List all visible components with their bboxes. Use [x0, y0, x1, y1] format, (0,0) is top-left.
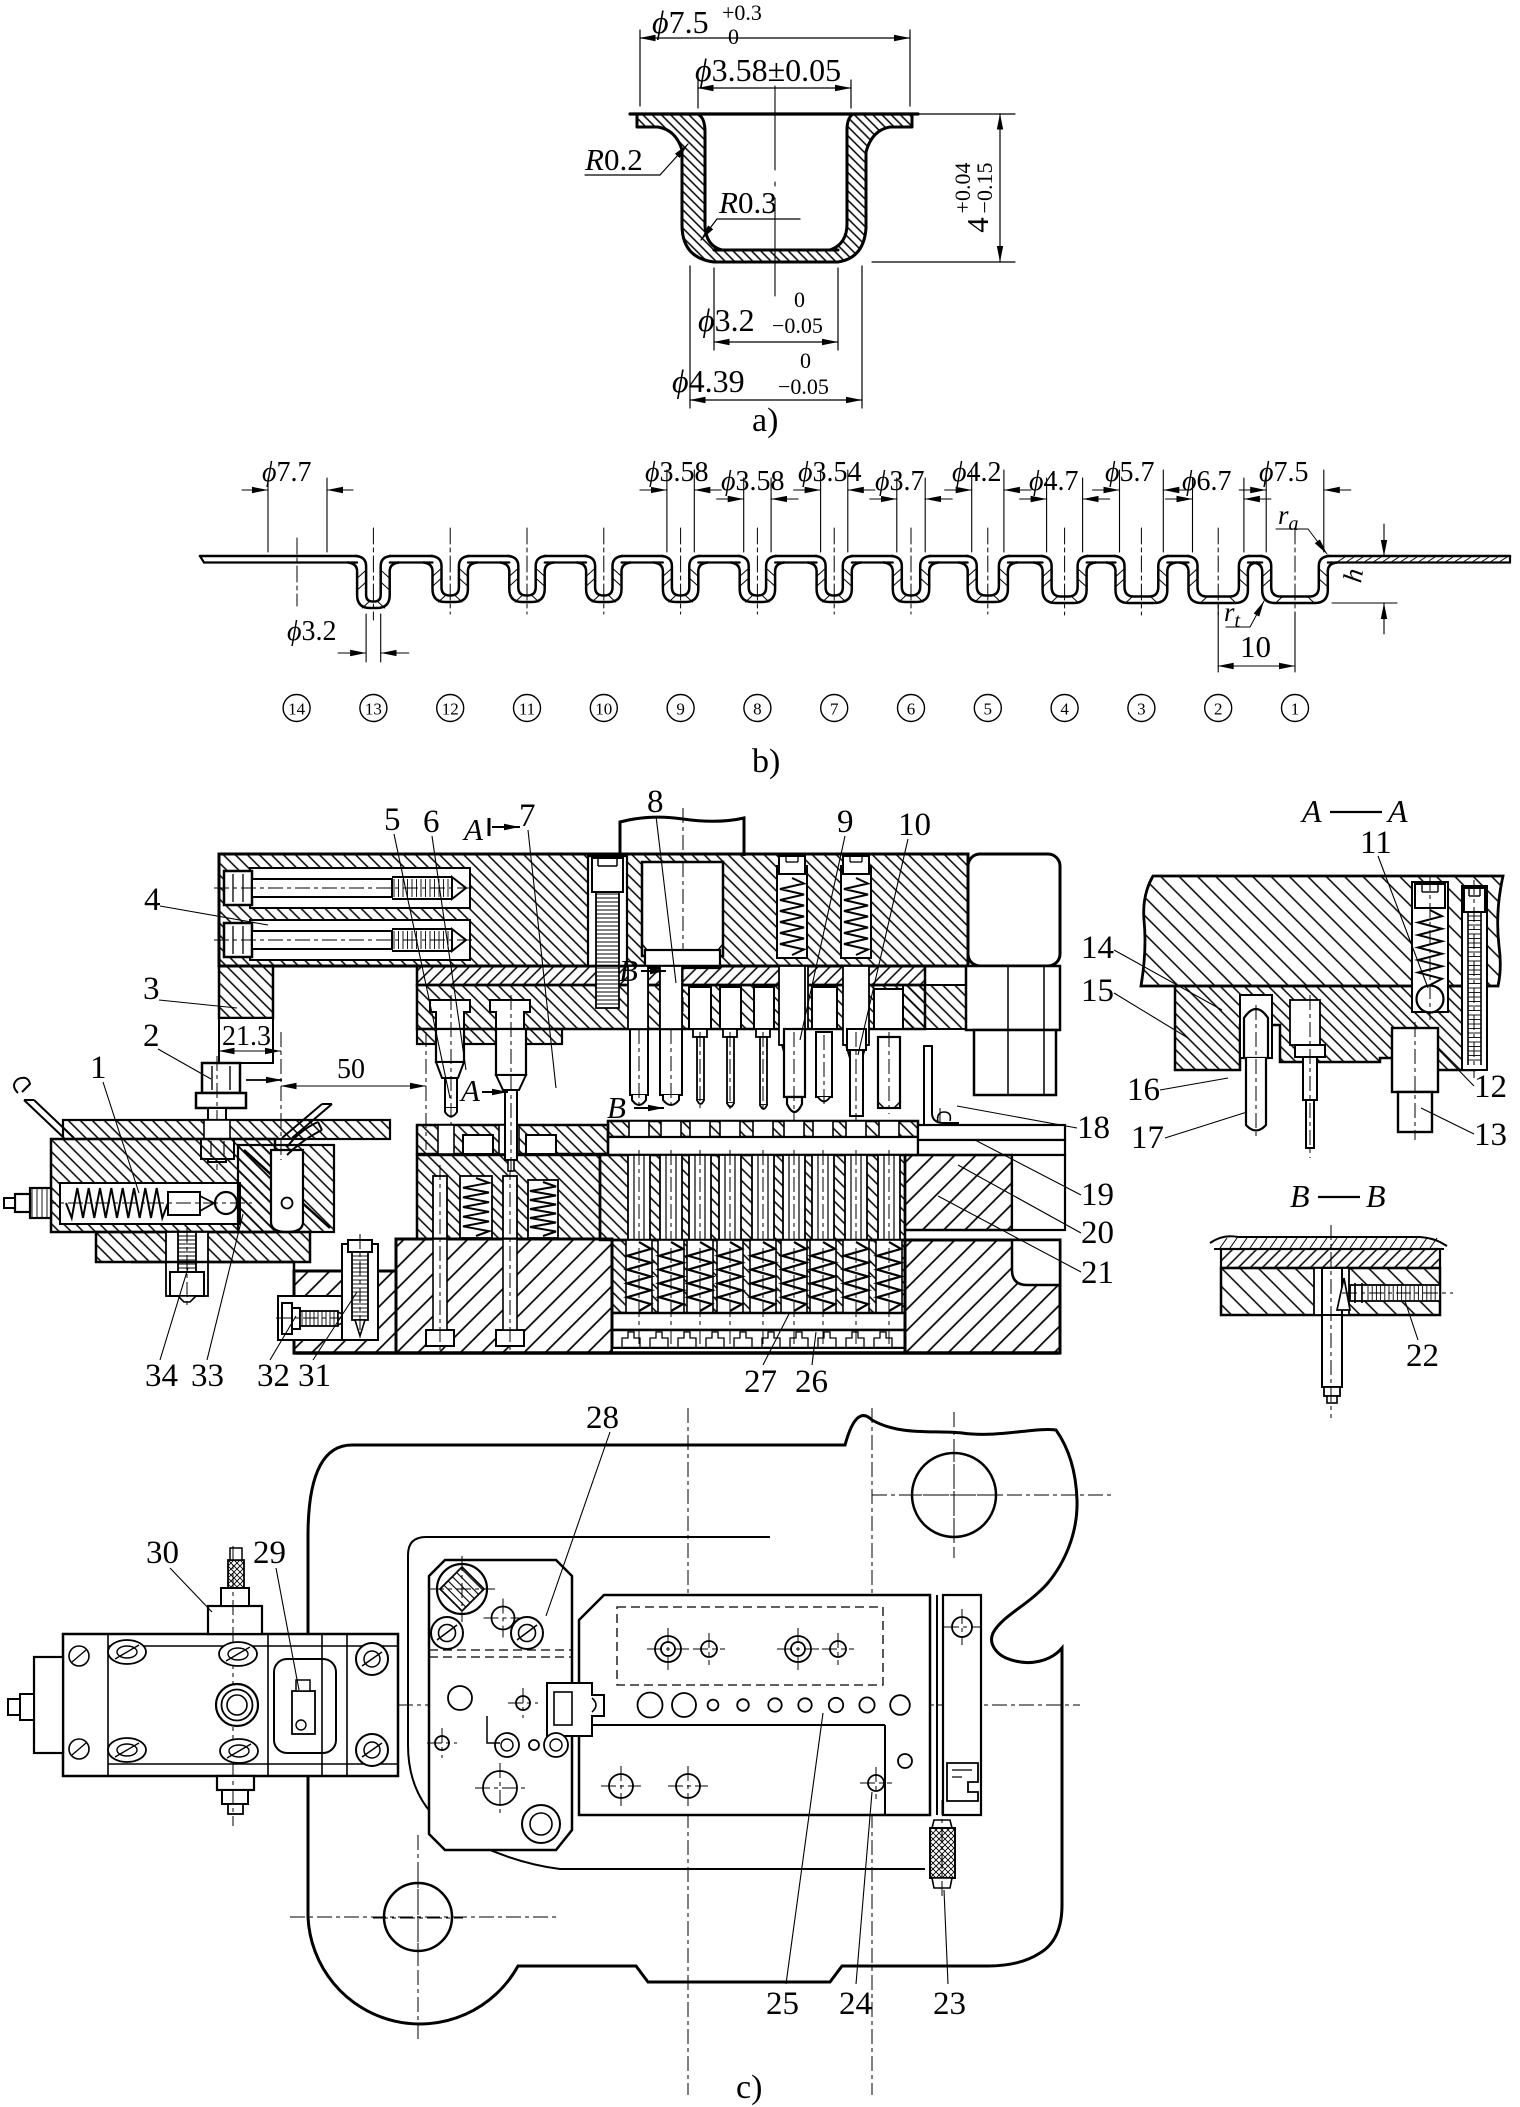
left stripper plate [417, 1125, 608, 1154]
press shank 8 top [620, 817, 744, 856]
pinB [723, 1029, 737, 1037]
lifter link 32 [271, 1150, 303, 1232]
comb plate [612, 1330, 905, 1348]
svg-text:12: 12 [1474, 1069, 1507, 1105]
B-B screw 22 [1350, 1285, 1440, 1301]
screw pocket 2 [250, 920, 470, 960]
svg-text:12: 12 [442, 700, 459, 719]
lower row holes [609, 1774, 633, 1798]
die right block [905, 1155, 1012, 1230]
svg-text:9: 9 [837, 804, 854, 840]
bolt 2 [202, 1063, 240, 1093]
punch E [816, 1032, 832, 1097]
svg-text:A: A [1300, 793, 1322, 829]
svg-text:4: 4 [1060, 700, 1069, 719]
top right hole [912, 1453, 996, 1537]
svg-text:33: 33 [191, 1358, 224, 1394]
feed spring 1 [66, 1188, 168, 1218]
svg-text:8: 8 [647, 784, 664, 820]
tongue to die plate [547, 1683, 604, 1736]
stop screw slot below [596, 966, 619, 1008]
die block center [600, 1155, 905, 1240]
dim phi3.2 [713, 268, 715, 350]
die plate plan [579, 1595, 930, 1815]
svg-text:22: 22 [1406, 1338, 1439, 1374]
svg-text:ϕ7.5: ϕ7.5 [652, 4, 709, 40]
right slotted screws [356, 1643, 388, 1675]
B-B pin slot [1314, 1268, 1349, 1315]
screw 31 pocket [278, 1296, 362, 1340]
svg-text:29: 29 [253, 1535, 286, 1571]
svg-text:−0.15: −0.15 [972, 163, 997, 214]
guide finger left [24, 1100, 74, 1138]
screw 32v pocket [342, 1244, 378, 1340]
svg-text:ϕ4.39: ϕ4.39 [672, 363, 745, 399]
pinA head [689, 987, 711, 1029]
lower die shoe right [905, 1240, 1060, 1353]
svg-text:7: 7 [519, 798, 536, 834]
svg-text:1: 1 [1291, 700, 1300, 719]
plan inner contour [408, 1537, 925, 1869]
right vertical centerline [871, 1408, 873, 2095]
svg-text:18: 18 [1077, 1110, 1110, 1146]
upper row holes [655, 1636, 681, 1662]
punchD column [782, 966, 808, 1029]
feed screw shaft [168, 1192, 200, 1215]
svg-text:26: 26 [795, 1364, 828, 1400]
svg-text:30: 30 [146, 1535, 179, 1571]
pinC head [754, 987, 774, 1029]
svg-text:+0.3: +0.3 [722, 0, 762, 25]
svg-text:3: 3 [143, 971, 160, 1007]
svg-text:4: 4 [960, 217, 995, 233]
right cover plates [918, 1125, 1065, 1140]
svg-text:9: 9 [676, 700, 685, 719]
punch 5 head [430, 1000, 470, 1029]
punch holder plate [417, 985, 925, 1029]
screw 30 stack top [208, 1606, 262, 1634]
svg-text:23: 23 [933, 1986, 966, 2022]
svg-text:10: 10 [1240, 629, 1271, 664]
svg-text:A: A [1386, 793, 1408, 829]
svg-text:a): a) [752, 402, 778, 439]
svg-text:13: 13 [1474, 1117, 1507, 1153]
svg-text:10: 10 [595, 700, 612, 719]
backing plate [417, 966, 925, 985]
A-A top plate [1141, 876, 1503, 986]
band loop 29 [274, 1659, 336, 1753]
svg-text:0: 0 [728, 24, 739, 49]
hex socket screw [437, 1564, 487, 1614]
svg-text:2: 2 [143, 1018, 160, 1054]
feeder foot plate [96, 1232, 310, 1262]
pinB head [720, 987, 741, 1029]
svg-text:16: 16 [1127, 1072, 1160, 1108]
B-B lower block [1221, 1268, 1440, 1315]
block 28 [429, 1560, 572, 1850]
svg-text:B: B [607, 1090, 626, 1125]
B-B wedge [1337, 1278, 1350, 1310]
svg-text:2: 2 [1214, 700, 1223, 719]
svg-text:c): c) [736, 2069, 762, 2106]
svg-text:5: 5 [384, 802, 401, 838]
feed roller [215, 1192, 237, 1214]
punchF column [845, 966, 868, 1029]
svg-text:17: 17 [1131, 1120, 1164, 1156]
left bracket arm [219, 966, 273, 1018]
feeder top plate [63, 1120, 390, 1139]
shank bore [642, 862, 723, 956]
svg-text:ϕ7.7: ϕ7.7 [262, 457, 312, 488]
B-B lower pin [1322, 1315, 1342, 1387]
vertical stop screw [588, 856, 627, 966]
bottom circles [483, 1771, 517, 1805]
svg-text:32: 32 [257, 1358, 290, 1394]
spring channel [60, 1183, 240, 1224]
suspension spring 2 [528, 1180, 558, 1238]
cup wall hatched section [637, 114, 912, 262]
svg-text:8: 8 [753, 700, 762, 719]
feeder left bracket [34, 1657, 63, 1753]
left punch holder extra band [417, 1029, 562, 1044]
hidden dashed rect [617, 1607, 883, 1685]
svg-text:ϕ4.2: ϕ4.2 [952, 457, 1002, 488]
stripper bolt 1 [433, 1176, 447, 1239]
punch 8 pins [630, 968, 648, 1095]
pin 23 knurled [932, 1820, 952, 1828]
B-B pin [1322, 1268, 1342, 1315]
svg-text:R0.2: R0.2 [584, 142, 643, 177]
cup inner bottom line [714, 249, 838, 252]
draw punch 6 lower [496, 1029, 526, 1075]
arm lower white [219, 1018, 273, 1063]
svg-text:ϕ3.54: ϕ3.54 [798, 457, 862, 488]
svg-text:ϕ6.7: ϕ6.7 [1182, 466, 1232, 497]
A-A spring screw 11 [1412, 882, 1448, 1012]
press vertical centerline [687, 1408, 689, 2095]
svg-text:21.3: 21.3 [222, 1021, 271, 1052]
svg-text:B: B [619, 953, 638, 988]
punch F [847, 1029, 866, 1050]
svg-text:10: 10 [898, 807, 931, 843]
svg-text:27: 27 [744, 1364, 777, 1400]
svg-text:3: 3 [1137, 700, 1146, 719]
svg-text:11: 11 [519, 700, 535, 719]
guide bush top [966, 966, 1060, 1030]
svg-text:1: 1 [90, 1050, 107, 1086]
stripper plate [608, 1121, 918, 1137]
spring pocket 9 [777, 866, 807, 958]
svg-text:A: A [459, 1073, 481, 1108]
svg-text:B: B [1366, 1178, 1386, 1214]
punch D [784, 1029, 805, 1097]
svg-text:−0.05: −0.05 [772, 313, 823, 338]
draw punch 5 lower [436, 1029, 464, 1062]
cup flange top line [630, 112, 918, 115]
bottom stack [217, 1776, 254, 1790]
finger bracket 18 [924, 1046, 958, 1129]
svg-text:R0.3: R0.3 [718, 185, 777, 220]
height dim 4 [918, 113, 1015, 115]
punchE head [812, 987, 837, 1029]
punch 6 head [490, 1000, 530, 1029]
svg-text:5: 5 [984, 700, 993, 719]
shoe step left [131, 1262, 294, 1271]
middle row holes [638, 1693, 663, 1718]
svg-text:13: 13 [365, 700, 382, 719]
small holes row [435, 1736, 449, 1750]
die plate left section [417, 1155, 600, 1239]
A-A bullet punch pocket [1240, 995, 1272, 1058]
vertical set screw [348, 1240, 372, 1252]
upper right rounded block [968, 854, 1060, 966]
screw 31 [282, 1303, 292, 1334]
main horizontal centerline [47, 1704, 1080, 1706]
svg-text:ϕ4.7: ϕ4.7 [1029, 466, 1079, 497]
svg-text:7: 7 [830, 700, 839, 719]
socket screw 4a [224, 871, 252, 905]
punch 8 flange [645, 950, 720, 968]
stripper bolt 2 [503, 1176, 517, 1239]
svg-text:4: 4 [144, 882, 161, 918]
svg-text:ϕ3.58: ϕ3.58 [645, 457, 709, 488]
svg-text:20: 20 [1081, 1215, 1114, 1251]
guide bush lower [974, 1030, 1056, 1095]
svg-text:21: 21 [1081, 1255, 1114, 1291]
socket screw 4b [224, 923, 252, 957]
svg-text:28: 28 [586, 1400, 619, 1436]
upper die plate [219, 854, 968, 966]
svg-text:ϕ3.2: ϕ3.2 [698, 302, 755, 338]
svg-text:B: B [1290, 1178, 1310, 1214]
lower die shoe left [294, 1271, 396, 1353]
svg-text:b): b) [752, 743, 780, 780]
pinC [756, 1029, 770, 1037]
punch 6 pin into die [505, 1090, 517, 1160]
svg-text:0: 0 [800, 348, 811, 373]
svg-text:31: 31 [298, 1358, 331, 1394]
cup center line [774, 86, 776, 296]
bottom left hole [384, 1883, 452, 1951]
oval screws [108, 1640, 146, 1664]
suspension spring 1 [460, 1176, 492, 1238]
punchG head [874, 989, 903, 1029]
svg-text:15: 15 [1081, 973, 1114, 1009]
svg-text:ϕ3.58: ϕ3.58 [721, 466, 785, 497]
screw pocket 1 (item 4) [250, 868, 470, 908]
svg-text:50: 50 [337, 1054, 365, 1085]
svg-text:24: 24 [839, 1986, 872, 2022]
stripper bolt feet [426, 1330, 454, 1346]
spring pocket 10 [841, 866, 871, 958]
A-A right punch 13 [1392, 1028, 1438, 1092]
A-A middle pin [1290, 1000, 1320, 1045]
lower spring box [612, 1240, 905, 1313]
wedge block 33 [238, 1145, 334, 1232]
spring pilot slots [779, 966, 805, 1045]
svg-text:ϕ3.2: ϕ3.2 [287, 616, 337, 647]
svg-text:6: 6 [907, 700, 916, 719]
svg-text:19: 19 [1081, 1177, 1114, 1213]
svg-text:ϕ3.7: ϕ3.7 [875, 466, 925, 497]
svg-text:14: 14 [1081, 930, 1114, 966]
stripper bolt heads [463, 1135, 493, 1154]
svg-text:ϕ3.58±0.05: ϕ3.58±0.05 [695, 52, 841, 88]
guide finger right [282, 1104, 332, 1138]
dim phi7.5 [639, 30, 641, 106]
right clamp rail [936, 1595, 938, 1815]
right hatched band [903, 985, 966, 1029]
pinA [693, 1029, 707, 1037]
feeder housing [51, 1139, 275, 1232]
svg-text:ϕ5.7: ϕ5.7 [1105, 457, 1155, 488]
A-A bullet punch 17 [1244, 1009, 1268, 1058]
svg-text:14: 14 [288, 700, 306, 719]
pin pass columns [628, 966, 648, 1029]
svg-text:34: 34 [145, 1358, 178, 1394]
bottom edge [294, 1351, 1060, 1355]
shoe under comb [612, 1348, 905, 1353]
B-B strip sheet [1210, 1236, 1447, 1246]
A-A right screw [1462, 886, 1487, 1070]
feeder body plan [63, 1634, 398, 1776]
svg-text:−0.05: −0.05 [778, 374, 829, 399]
svg-text:6: 6 [423, 804, 440, 840]
latch detail [947, 1763, 978, 1801]
svg-text:A: A [462, 812, 484, 847]
svg-text:11: 11 [1360, 825, 1392, 861]
dim phi4.39 [689, 266, 691, 408]
ejector plate [612, 1313, 905, 1330]
B-B die plate [1221, 1249, 1440, 1268]
svg-text:25: 25 [766, 1986, 799, 2022]
svg-text:0: 0 [794, 287, 805, 312]
svg-text:ϕ7.5: ϕ7.5 [1259, 457, 1309, 488]
central boss [216, 1684, 258, 1726]
screw 34 [166, 1232, 208, 1296]
dim phi3.58 [697, 80, 699, 108]
stripper lower band [608, 1137, 918, 1155]
punch G [878, 1037, 900, 1108]
plan outer outline [308, 1416, 1077, 2024]
A-A die holder band [1175, 986, 1475, 1070]
adjuster cap [30, 1188, 51, 1218]
